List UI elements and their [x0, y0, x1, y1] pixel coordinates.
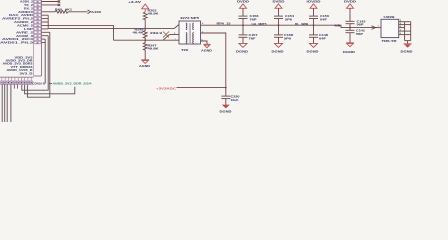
wire down: [278, 8, 280, 16]
wire pin37 to resistor R4B: [42, 11, 56, 13]
wire vertical collector: [47, 15, 49, 28]
long vertical wire b: [4, 84, 6, 122]
pin name labels of connector J1: [0, 0, 34, 45]
wire vertical V1: [44, 39, 46, 83]
svg-text:DL_3WB: DL_3WB: [295, 22, 308, 26]
wire through bus: [313, 19, 315, 35]
wire vertical x113: [113, 25, 115, 40]
long vertical wire d: [10, 84, 12, 122]
svg-text:76P: 76P: [250, 18, 257, 22]
wire down: [349, 8, 351, 21]
svg-text:+3V3ADC: +3V3ADC: [156, 86, 177, 90]
long vertical wire c: [6, 84, 8, 122]
wire to ground: [242, 37, 244, 43]
capacitor C142: [346, 21, 355, 23]
ground DGND branch4: [346, 43, 354, 47]
svg-text:DGND: DGND: [236, 49, 248, 53]
svg-text:TR6-TR: TR6-TR: [382, 39, 397, 43]
svg-text:5P6: 5P6: [285, 18, 293, 22]
wire pin32: [42, 28, 49, 30]
wire diagonal to T29 pin3: [174, 25, 179, 29]
svg-text:AGND: AGND: [139, 64, 150, 68]
svg-text:239.9: 239.9: [150, 31, 163, 35]
wire lower y40.2: [114, 39, 180, 41]
wire R247 to AGND: [144, 53, 146, 60]
svg-text:+3.3V: +3.3V: [128, 0, 141, 4]
wire loop B: [25, 84, 75, 93]
svg-text:ANDB_3V3_DDR_2/3/4: ANDB_3V3_DDR_2/3/4: [53, 82, 93, 86]
pin number boxes of connector J1: [34, 0, 41, 44]
wire pin28: [42, 42, 46, 44]
wire R203 to bus: [144, 20, 146, 29]
wire pin40 with no-connect: [42, 0, 61, 2]
transformer core lines: [188, 23, 190, 43]
pin numbers of connector J1: [36, 0, 39, 44]
svg-text:DGND: DGND: [220, 110, 232, 114]
svg-text:56P: 56P: [357, 23, 364, 27]
junction: [144, 39, 146, 41]
wire pin39 with no-connect: [42, 4, 61, 6]
svg-text:46.4K: 46.4K: [133, 31, 144, 35]
wire pin31: [42, 31, 50, 33]
wire to ground: [349, 33, 351, 43]
wire through bus: [278, 19, 280, 35]
wire T29 pin1 down: [201, 33, 226, 96]
wire pin36: [42, 14, 49, 16]
wire pin33 long: [42, 24, 114, 26]
ground DGND branch3: [310, 43, 318, 47]
svg-text:56P: 56P: [356, 32, 363, 36]
wire pin stub 3: [399, 21, 411, 23]
IC U229 body: [381, 19, 399, 37]
resistor R203: [143, 12, 147, 20]
power arrow DVDD: [240, 4, 247, 9]
svg-text:DGND: DGND: [343, 50, 355, 54]
wire X to T29 pin5: [170, 34, 180, 36]
svg-text:DGND: DGND: [272, 49, 284, 53]
ground DGND branch1: [239, 43, 247, 47]
wire T29 pin6 to AGND: [201, 41, 208, 44]
ground DGND branch2: [275, 43, 283, 47]
wire pin35: [42, 18, 49, 20]
svg-text:U229: U229: [384, 15, 396, 19]
svg-text:3V3_D: 3V3_D: [20, 71, 33, 75]
wire vertical V3: [27, 32, 49, 97]
svg-text:CON1A-B: CON1A-B: [33, 82, 46, 86]
ground DGND under U229: [404, 43, 412, 45]
connector J1 body left rail: [33, 0, 35, 76]
capacitor C150: [309, 16, 318, 18]
wire R4B to tag A163: [69, 11, 88, 13]
wire pin stub 1b: [399, 30, 411, 32]
svg-text:AVD01_P/L3: AVD01_P/L3: [0, 41, 34, 45]
tick: [49, 83, 52, 85]
ground AGND under R247: [141, 60, 149, 64]
capacitor C157: [239, 35, 248, 37]
svg-text:9K1: 9K1: [65, 8, 73, 12]
svg-text:LB_3MT5: LB_3MT5: [252, 22, 268, 26]
short stubs below boxes: [14, 84, 17, 88]
svg-text:10uF: 10uF: [231, 98, 240, 102]
wire T29 pin8 bus right: [201, 25, 378, 27]
wire vertical ladder B: [410, 22, 412, 41]
svg-text:AGND: AGND: [201, 49, 212, 53]
resistor R4B: [55, 10, 69, 13]
wire pin stub 2: [399, 24, 411, 26]
off-page tag A163: [88, 10, 91, 14]
svg-text:DGND: DGND: [307, 49, 319, 53]
bottom pin stubs: [2, 77, 31, 81]
wire pin stub 8: [399, 27, 405, 29]
wire pin30: [42, 35, 49, 37]
net entry wedge: [372, 26, 376, 30]
power arrow +3.3V: [142, 4, 149, 12]
winding right upper: [193, 23, 194, 30]
wire pin29: [42, 38, 46, 40]
wire to ground: [278, 37, 280, 43]
svg-text:49.9K: 49.9K: [148, 12, 159, 16]
wire pin stub 5: [399, 34, 411, 36]
svg-text:A163: A163: [91, 10, 102, 14]
winding left lower: [186, 33, 187, 44]
wire vertical V2: [22, 36, 48, 90]
wire to ground: [313, 37, 315, 43]
svg-text:04F: 04F: [320, 18, 328, 22]
wire down: [313, 8, 315, 16]
capacitor C156: [239, 16, 248, 18]
ground DGND under C230: [222, 105, 230, 109]
capacitor C154: [274, 16, 283, 18]
green pin names lower connector section: [3, 55, 34, 75]
long vertical wire a: [1, 84, 3, 122]
wire vertical ladder A: [404, 22, 406, 41]
capacitor C230: [221, 96, 230, 105]
winding left upper: [186, 23, 187, 30]
wire through bus: [242, 19, 244, 35]
bottom left tiny labels row: [1, 81, 4, 84]
connector J1 body bottom edge: [0, 76, 34, 78]
wire drop to DGND: [407, 41, 409, 44]
pin numbers right: [400, 20, 402, 35]
junction at +3V3ADC: [225, 87, 227, 89]
svg-text:04F: 04F: [319, 36, 327, 40]
resistor R247: [143, 40, 147, 52]
ground AGND under T29: [204, 44, 211, 47]
wire down: [242, 8, 244, 16]
resistor R248: [143, 29, 147, 41]
junction: [144, 28, 146, 30]
svg-text:49.9K: 49.9K: [148, 47, 159, 51]
svg-text:RPA_15: RPA_15: [217, 22, 232, 26]
wire pin34: [42, 21, 49, 23]
svg-text:T29: T29: [181, 48, 189, 52]
wire +3V3ADC: [177, 87, 226, 89]
capacitor C158: [274, 35, 283, 37]
svg-text:R4B: R4B: [55, 8, 62, 12]
transformer T29 body: [179, 21, 201, 44]
wire through bus: [349, 24, 351, 31]
power arrow IOVDD: [310, 4, 317, 9]
svg-text:DGND: DGND: [401, 50, 413, 54]
svg-text:MB: MB: [335, 23, 341, 27]
wire into U229: [376, 27, 382, 29]
power arrow DVDD: [347, 4, 354, 9]
connector J1 body right rail: [41, 0, 43, 76]
X marker: [163, 32, 169, 38]
power arrow DVDD: [275, 4, 282, 9]
wire bus y28.6: [48, 28, 174, 30]
svg-text:5P6: 5P6: [284, 36, 292, 40]
connector J1 pin-box column bottom: [34, 75, 42, 77]
winding right lower: [193, 33, 194, 44]
wire ladder bottom: [405, 40, 411, 42]
capacitor C141: [346, 30, 355, 32]
wire diagonal lower to X: [163, 35, 170, 41]
svg-text:4273 NP5: 4273 NP5: [180, 16, 200, 20]
svg-text:76F: 76F: [249, 36, 257, 40]
capacitor C148: [309, 35, 318, 37]
